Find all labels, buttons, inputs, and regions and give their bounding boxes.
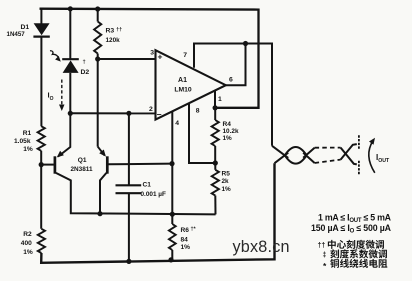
svg-text:R6 †*: R6 †*: [181, 226, 197, 234]
svg-text:1N457: 1N457: [7, 31, 26, 38]
svg-text:10.2k: 10.2k: [223, 128, 239, 135]
svg-text:1%: 1%: [222, 186, 232, 193]
svg-text:C1: C1: [143, 181, 152, 188]
svg-text:3: 3: [150, 50, 154, 57]
svg-text:*: *: [323, 261, 327, 271]
svg-text:−: −: [157, 109, 162, 119]
svg-text:‡: ‡: [323, 252, 327, 259]
svg-text:ybx8.cn: ybx8.cn: [233, 238, 290, 256]
svg-text:+: +: [158, 52, 163, 62]
svg-text:R4: R4: [223, 121, 232, 128]
svg-text:6: 6: [229, 77, 233, 84]
svg-text:R3 ††: R3 ††: [106, 27, 123, 35]
svg-text:IOUT: IOUT: [376, 153, 390, 164]
svg-text:400: 400: [21, 240, 32, 247]
svg-text:2: 2: [149, 106, 153, 113]
svg-text:7: 7: [183, 52, 187, 59]
svg-text:D2: D2: [81, 69, 90, 76]
svg-text:1%: 1%: [23, 146, 33, 153]
svg-text:†: †: [83, 60, 86, 66]
svg-text:Q1: Q1: [78, 157, 87, 164]
svg-text:R5: R5: [222, 171, 231, 178]
svg-text:8: 8: [196, 108, 200, 115]
svg-text:LM10: LM10: [174, 87, 192, 94]
svg-text:1: 1: [218, 96, 222, 103]
svg-text:D1: D1: [21, 24, 30, 31]
svg-text:84: 84: [181, 236, 189, 243]
svg-text:A1: A1: [178, 77, 187, 84]
svg-text:IO: IO: [48, 91, 54, 103]
svg-text:0.001 µF: 0.001 µF: [141, 191, 166, 198]
svg-text:1.05k: 1.05k: [14, 138, 31, 145]
svg-text:2k: 2k: [222, 178, 230, 185]
svg-text:R1: R1: [23, 130, 32, 137]
svg-text:4: 4: [175, 120, 179, 127]
svg-text:R2: R2: [23, 231, 32, 238]
svg-text:1%: 1%: [223, 135, 233, 142]
svg-text:††: ††: [318, 243, 326, 250]
svg-text:2N3811: 2N3811: [71, 166, 93, 173]
svg-text:1%: 1%: [181, 244, 191, 251]
svg-text:120k: 120k: [106, 37, 121, 44]
svg-text:1%: 1%: [23, 249, 33, 256]
svg-text:150 µA ≤ IO ≤ 500 µA: 150 µA ≤ IO ≤ 500 µA: [311, 223, 392, 235]
